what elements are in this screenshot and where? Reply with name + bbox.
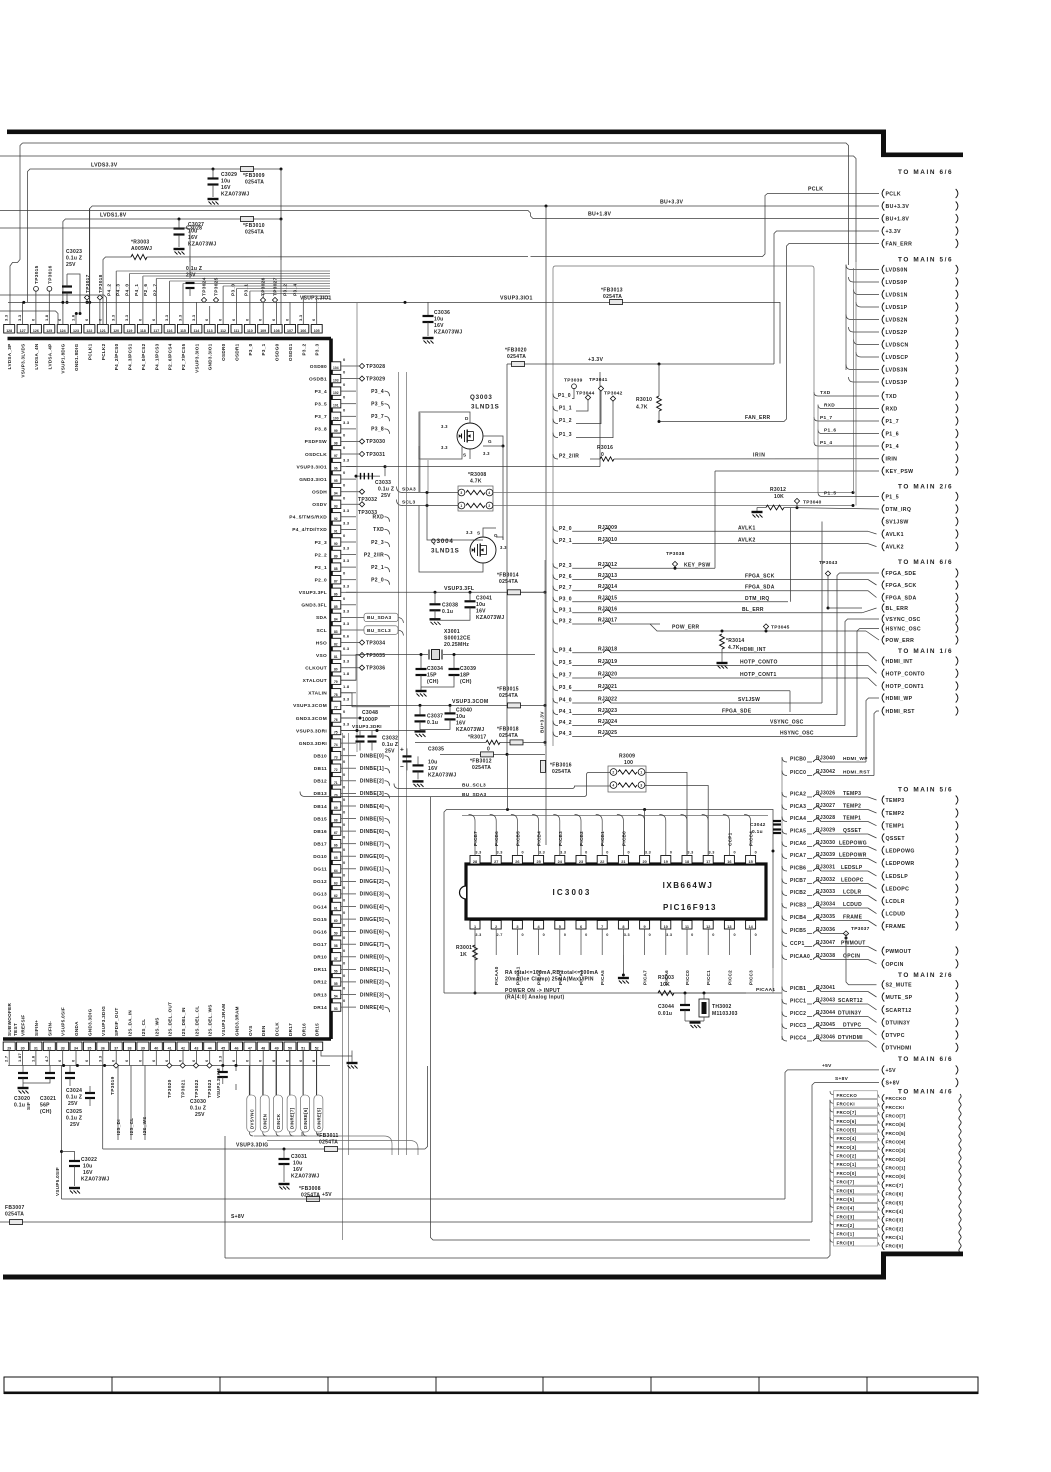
wire from top pin 125: [48, 291, 50, 324]
svg-text:P2_6/PCS4: P2_6/PCS4: [168, 343, 173, 370]
IC3003 pin 10: [661, 921, 671, 930]
svg-text:FRCI[4]: FRCI[4]: [886, 1209, 904, 1214]
svg-text:SCART12: SCART12: [886, 1008, 912, 1014]
svg-text:GND3.3IO1: GND3.3IO1: [208, 343, 213, 370]
svg-text:0: 0: [487, 746, 490, 752]
svg-text:84: 84: [334, 617, 338, 621]
svg-text:P1_5: P1_5: [886, 495, 900, 501]
wire vertical x=507 from +3.3V down: [506, 364, 508, 754]
svg-text:*R3014: *R3014: [726, 638, 744, 644]
svg-text:S00012CE: S00012CE: [444, 636, 471, 642]
wire from pin 64: [341, 868, 356, 870]
wire to LVDS0P: [849, 277, 880, 282]
svg-text:HDMI_WP: HDMI_WP: [843, 756, 868, 762]
svg-text:106: 106: [300, 329, 306, 333]
svg-text:BU+3.3V: BU+3.3V: [886, 204, 910, 210]
svg-text:PICB2: PICB2: [579, 831, 584, 846]
svg-text:128: 128: [6, 329, 12, 333]
svg-text:10K: 10K: [774, 494, 784, 500]
svg-text:RJ3033: RJ3033: [816, 889, 835, 895]
svg-text:1.8: 1.8: [343, 684, 350, 689]
svg-text:P2_1: P2_1: [371, 565, 384, 571]
svg-text:DTVHDMI: DTVHDMI: [838, 1035, 863, 1041]
svg-text:20mA(Ice Clamp) 25mA(Max) /PIN: 20mA(Ice Clamp) 25mA(Max) /PIN: [505, 977, 594, 983]
svg-text:SIF: SIF: [26, 1102, 31, 1110]
svg-text:25V: 25V: [70, 1122, 80, 1128]
connector entry LEDOPC: [882, 884, 884, 893]
wire from pin 102: [341, 390, 356, 392]
svg-text:KZA073WJ: KZA073WJ: [221, 192, 250, 198]
svg-text:M1103J03: M1103J03: [712, 1011, 738, 1017]
svg-text:DTM_IRQ: DTM_IRQ: [886, 507, 912, 513]
wire from pin 72: [341, 767, 356, 769]
wire SCL3: [397, 500, 403, 506]
ground: [416, 690, 427, 692]
connector entry FRCI[6]: [882, 1190, 884, 1198]
ground: [413, 780, 424, 782]
svg-text:R3009: R3009: [619, 754, 635, 760]
wire P1_6 from bus: [818, 430, 879, 434]
svg-text:C3041: C3041: [476, 595, 492, 601]
wire from pin 96: [341, 466, 356, 468]
ground right of pin 46: [235, 1066, 237, 1072]
svg-text:P3_0: P3_0: [248, 343, 253, 355]
svg-text:HDMI_RST: HDMI_RST: [843, 770, 870, 776]
svg-text:P1_3: P1_3: [559, 432, 572, 438]
svg-text:HOTP_CONT1: HOTP_CONT1: [886, 684, 924, 690]
svg-text:DG11: DG11: [314, 867, 327, 873]
wire from top pin 109: [262, 294, 264, 325]
svg-text:0254TA: 0254TA: [245, 180, 264, 186]
svg-text:RJ3022: RJ3022: [598, 697, 617, 703]
svg-text:FRCO[4]: FRCO[4]: [837, 1136, 857, 1141]
svg-text:PICC3: PICC3: [790, 1023, 806, 1029]
svg-text:3.3: 3.3: [124, 314, 129, 321]
pin 118 (P4_0/PCS2) on IC top edge: [137, 325, 148, 334]
svg-text:RJ3016: RJ3016: [598, 606, 617, 612]
svg-text:C3034: C3034: [427, 666, 443, 672]
svg-text:HOTP_CONTO: HOTP_CONTO: [886, 671, 925, 677]
svg-text:GND3.3DRI: GND3.3DRI: [299, 741, 328, 747]
svg-text:0.1u Z: 0.1u Z: [66, 1095, 82, 1101]
svg-text:0.1u Z: 0.1u Z: [186, 266, 202, 272]
capacitor C3027 10u 16V: [178, 219, 180, 228]
border top bar: [7, 130, 885, 135]
svg-text:111: 111: [234, 329, 240, 333]
svg-text:C3038: C3038: [442, 602, 458, 608]
svg-text:S: S: [477, 531, 480, 536]
svg-text:CCP1: CCP1: [727, 832, 732, 846]
title block divider: [650, 1377, 652, 1394]
test point TP3019: [113, 1063, 118, 1068]
svg-text:0.1u Z: 0.1u Z: [66, 256, 82, 262]
svg-text:TP3036: TP3036: [366, 666, 385, 672]
test point TP3032: [359, 489, 364, 494]
wire from pin 94: [341, 491, 359, 493]
svg-text:PICC2: PICC2: [727, 970, 732, 985]
wire VSYNC_OSC vertical: [845, 619, 879, 726]
wire from pin 85: [341, 604, 356, 606]
wire from pin 101: [341, 403, 356, 405]
svg-text:44: 44: [208, 1046, 212, 1050]
wire from pin 54: [341, 994, 356, 996]
svg-text:DB14: DB14: [314, 804, 327, 810]
wire from pin 74: [341, 742, 356, 744]
svg-text:LCDLR: LCDLR: [886, 899, 905, 905]
connector entry FRCO[2]: [882, 1155, 884, 1163]
svg-text:DINBE[2]: DINBE[2]: [360, 779, 384, 785]
svg-text:P4_0: P4_0: [125, 284, 131, 296]
svg-text:104: 104: [333, 366, 339, 370]
svg-text:52: 52: [315, 1046, 319, 1050]
pin 123 (GND1.8DIG) on IC top edge: [71, 325, 82, 334]
wire TXD from bus: [814, 392, 879, 396]
svg-text:125: 125: [46, 329, 52, 333]
svg-text:P2_2/IR: P2_2/IR: [559, 454, 579, 460]
svg-text:BU+3.3V: BU+3.3V: [540, 711, 546, 733]
wire from bottom pin 44: [209, 1051, 211, 1066]
svg-text:VSO: VSO: [316, 653, 327, 659]
junction Q3003 drain node: [502, 445, 505, 448]
wire PICB6: [782, 866, 787, 871]
wire from IC3003 pin 18: [681, 815, 688, 856]
pin 119 (P4_3/PCS1) on IC top edge: [124, 325, 135, 334]
svg-text:DINGE[5]: DINGE[5]: [360, 917, 384, 923]
wire manifold under loop edge: [462, 815, 768, 817]
svg-text:DVSYNC: DVSYNC: [249, 1108, 254, 1129]
svg-text:RJ3030: RJ3030: [816, 840, 835, 846]
svg-text:4.7: 4.7: [44, 1055, 49, 1062]
svg-text:3.3: 3.3: [343, 621, 350, 626]
svg-text:P2_0: P2_0: [559, 526, 572, 532]
svg-text:*FB3018: *FB3018: [497, 726, 519, 732]
svg-text:FRCI[7]: FRCI[7]: [837, 1180, 855, 1185]
svg-text:16: 16: [727, 860, 731, 864]
svg-text:46: 46: [235, 1046, 239, 1050]
svg-text:RJ3039: RJ3039: [816, 852, 835, 858]
wire from pin 61: [341, 906, 356, 908]
svg-text:SDA3: SDA3: [402, 487, 416, 493]
svg-text:DINGE[4]: DINGE[4]: [360, 904, 384, 910]
wire/label FRCI[7]: [830, 1178, 834, 1182]
svg-text:PICB1: PICB1: [600, 831, 605, 846]
svg-text:PICB3: PICB3: [790, 903, 806, 909]
wire BU bus lower going right: [431, 797, 811, 1240]
svg-text:TP3027: TP3027: [273, 277, 279, 296]
ground symbol below pin 52: [351, 1051, 353, 1063]
svg-text:112: 112: [220, 329, 226, 333]
wire from bottom pin 32: [48, 1051, 50, 1066]
wire from pin 58: [341, 943, 356, 945]
svg-text:VSUP5.0SIF: VSUP5.0SIF: [61, 1007, 66, 1036]
svg-text:1.8: 1.8: [71, 314, 76, 321]
svg-text:RJ3034: RJ3034: [816, 902, 835, 908]
ground: [423, 337, 434, 339]
connector entry FPGA_SCK: [882, 581, 884, 590]
svg-text:BU+1.8V: BU+1.8V: [588, 212, 612, 218]
wire to LVDSCP: [856, 352, 879, 357]
svg-text:1: 1: [640, 771, 642, 775]
svg-text:RJ3013: RJ3013: [598, 573, 617, 579]
svg-text:PWMOUT: PWMOUT: [886, 949, 912, 955]
wire to LVDS2P: [849, 327, 880, 332]
svg-text:CLKOUT: CLKOUT: [305, 666, 327, 672]
IC3003 pin 21: [618, 856, 628, 865]
svg-text:C3023: C3023: [66, 249, 82, 255]
svg-text:P4_3/PCS1: P4_3/PCS1: [128, 343, 133, 370]
svg-text:BU+1.8V: BU+1.8V: [886, 217, 910, 223]
svg-text:FRCO[7]: FRCO[7]: [886, 1114, 906, 1119]
wire to LVDS2N: [846, 315, 879, 320]
svg-text:118: 118: [140, 329, 146, 333]
svg-text:92: 92: [334, 517, 338, 521]
wire from top pin 112: [222, 286, 224, 325]
ferrite bead FB3010 0254TA: [241, 217, 254, 222]
svg-text:DG14: DG14: [313, 904, 327, 910]
wire PICB0: [782, 757, 787, 762]
test point TP3033: [359, 502, 364, 507]
svg-text:OSDR1: OSDR1: [235, 343, 240, 360]
pin 107 (OSDG1) on IC top edge: [285, 325, 296, 334]
connector entry FRCO[6]: [882, 1120, 884, 1128]
svg-text:103: 103: [333, 379, 339, 383]
wire from top pin 115: [182, 284, 184, 325]
horizontal wire y=295 left area: [0, 295, 107, 325]
svg-text:RJ3009: RJ3009: [598, 525, 617, 531]
svg-text:GND3.3DIG: GND3.3DIG: [87, 1008, 92, 1036]
capacitor C3022 10u 16V KZA073WJ: [62, 1152, 75, 1161]
svg-text:R3012: R3012: [770, 487, 786, 493]
IC3003 pin 12: [703, 921, 713, 930]
IC3003 pin 4: [534, 921, 544, 930]
svg-text:BU_SCL3: BU_SCL3: [462, 783, 486, 789]
wire from pin 73: [341, 755, 356, 757]
svg-text:+3.3V: +3.3V: [588, 357, 603, 363]
svg-text:DTUIN3Y: DTUIN3Y: [886, 1020, 911, 1026]
svg-text:4: 4: [612, 784, 614, 788]
connector entry LVDS0N: [882, 265, 884, 274]
svg-text:BU+3.3V: BU+3.3V: [660, 200, 684, 206]
IC3003 pin 15: [746, 856, 756, 865]
svg-text:KZA073WJ: KZA073WJ: [476, 615, 505, 621]
connector entry LVDS3N: [882, 365, 884, 374]
IC IC3003 IXB664WJ PIC16F913 (microcontroller): [466, 864, 766, 919]
svg-text:16V: 16V: [428, 766, 438, 772]
svg-text:SDA: SDA: [316, 615, 327, 621]
connector entry LVDSCP: [882, 353, 884, 362]
wire/label FRCO[7]: [830, 1109, 834, 1113]
svg-text:4.7K: 4.7K: [728, 645, 740, 651]
svg-text:LEDSLP: LEDSLP: [886, 874, 909, 880]
svg-text:DINRE[7]: DINRE[7]: [290, 1107, 295, 1129]
svg-text:TP3025: TP3025: [214, 277, 220, 296]
wire PICA7: [782, 854, 787, 859]
svg-text:QSSET: QSSET: [886, 836, 906, 842]
svg-text:P3_7: P3_7: [559, 673, 572, 679]
svg-text:RJ3023: RJ3023: [598, 708, 617, 714]
connector entry RXD: [882, 404, 884, 413]
svg-text:VSUP3.3IO1: VSUP3.3IO1: [500, 296, 533, 302]
svg-text:TO MAIN 4/6: TO MAIN 4/6: [898, 1088, 953, 1095]
svg-text:IRIN: IRIN: [886, 457, 898, 463]
svg-text:I2S_DEL_IN: I2S_DEL_IN: [181, 1007, 186, 1036]
wire/label FRCI[1]: [830, 1230, 834, 1234]
svg-text:41: 41: [168, 1046, 172, 1050]
svg-text:QSSET: QSSET: [843, 828, 861, 834]
svg-text:TP3039: TP3039: [564, 378, 583, 384]
svg-text:TO MAIN 6/6: TO MAIN 6/6: [898, 1056, 953, 1063]
svg-text:16V: 16V: [293, 1167, 303, 1173]
svg-text:C3029: C3029: [221, 172, 237, 178]
svg-text:DG17: DG17: [313, 942, 327, 948]
svg-text:2.7: 2.7: [4, 1055, 9, 1062]
connector entry FRCCKO: [882, 1094, 884, 1102]
svg-text:RJ3032: RJ3032: [816, 877, 835, 883]
svg-text:KZA073WJ: KZA073WJ: [428, 772, 457, 778]
svg-text:3LND1S: 3LND1S: [431, 548, 460, 555]
svg-text:RJ3010: RJ3010: [598, 537, 617, 543]
svg-text:42: 42: [181, 1046, 185, 1050]
svg-text:0.1u: 0.1u: [427, 720, 438, 726]
svg-text:PICB1: PICB1: [790, 986, 806, 992]
svg-text:DINGE[7]: DINGE[7]: [360, 942, 384, 948]
svg-text:RJ3027: RJ3027: [816, 803, 835, 809]
svg-text:DINRE[4]: DINRE[4]: [360, 1005, 384, 1011]
outer loop wire around PIC block: [444, 810, 773, 994]
svg-text:3.3: 3.3: [497, 851, 503, 855]
svg-text:73: 73: [334, 756, 338, 760]
svg-text:VSUP3.3COM: VSUP3.3COM: [452, 699, 488, 705]
svg-text:DINGE[1]: DINGE[1]: [360, 867, 384, 873]
svg-text:TEMP1: TEMP1: [843, 816, 861, 822]
svg-text:0.1u Z: 0.1u Z: [190, 1106, 206, 1112]
wire rail y=143 (LVDS feed): [23, 143, 849, 265]
wire from pin 60: [341, 918, 356, 920]
IC3003 pin 6: [576, 921, 586, 930]
svg-text:P4_3: P4_3: [559, 731, 572, 737]
wire from pin 57: [341, 956, 356, 958]
IC3003 pin 26: [512, 856, 522, 865]
svg-text:PICA7: PICA7: [790, 853, 806, 859]
svg-text:P2_2: P2_2: [315, 552, 327, 558]
net label BU_SDA3: [364, 613, 398, 622]
svg-text:DB11: DB11: [314, 766, 327, 772]
svg-text:66: 66: [334, 844, 338, 848]
svg-text:*FB3012: *FB3012: [470, 758, 492, 764]
svg-text:G: G: [488, 439, 492, 444]
svg-text:DB12: DB12: [314, 779, 327, 785]
svg-text:0: 0: [755, 933, 757, 937]
svg-text:PICB6: PICB6: [790, 866, 806, 872]
svg-text:GND1.8DIG: GND1.8DIG: [74, 343, 79, 371]
svg-text:10u: 10u: [221, 179, 231, 185]
svg-text:43: 43: [194, 1046, 198, 1050]
wire from top pin 116: [169, 281, 171, 325]
svg-text:67: 67: [334, 831, 338, 835]
wire from IC3003 pin 8: [622, 929, 624, 955]
svg-text:HSYNC_OSC: HSYNC_OSC: [886, 627, 921, 633]
wire from bottom pin 35: [88, 1051, 90, 1066]
svg-text:RJ3046: RJ3046: [816, 1035, 835, 1041]
svg-text:0254TA: 0254TA: [499, 579, 518, 585]
svg-text:RJ3031: RJ3031: [816, 865, 835, 871]
svg-text:TP3015: TP3015: [34, 265, 40, 284]
svg-text:BU_SDA3: BU_SDA3: [462, 792, 487, 798]
svg-text:0: 0: [564, 933, 566, 937]
capacitor C3025 0.1u Z 25V: [85, 1092, 95, 1094]
title block: [4, 1377, 978, 1394]
vertical bus wire x=342.5 (DB region): [342, 733, 344, 1240]
wire from IC3003 pin 6: [580, 929, 582, 955]
wire from IC3003 pin 10: [665, 929, 667, 955]
capacitor near VSUP3.3RAM: [222, 1066, 224, 1072]
svg-text:LVDS3P: LVDS3P: [886, 380, 908, 386]
svg-text:15: 15: [748, 860, 752, 864]
svg-text:P2_7/PCS5: P2_7/PCS5: [181, 343, 186, 370]
wire from IC3003 pin 25: [532, 815, 539, 856]
svg-text:10K: 10K: [660, 982, 670, 988]
junction: [178, 218, 181, 221]
svg-text:SPDIF_OUT: SPDIF_OUT: [114, 1008, 119, 1036]
wire to LVDS1N: [854, 290, 880, 295]
svg-text:LVDSCN: LVDSCN: [886, 343, 909, 349]
junction dots on bottom bus: [62, 1064, 65, 1067]
pin 124 (VSUP1.8DIG) on IC top edge: [57, 325, 68, 334]
svg-text:FRCI[4]: FRCI[4]: [837, 1206, 855, 1211]
svg-text:21: 21: [621, 860, 625, 864]
svg-text:LCDUD: LCDUD: [886, 912, 906, 918]
svg-text:25V: 25V: [66, 262, 76, 268]
svg-text:C3044: C3044: [658, 1004, 674, 1010]
border top-right step: [881, 130, 886, 157]
svg-text:RJ3021: RJ3021: [598, 684, 617, 690]
connector entry P1_7: [882, 417, 884, 426]
wire to LVDS3P: [849, 377, 880, 382]
svg-text:S+8V: S+8V: [835, 1076, 849, 1082]
connector entry LVDSCN: [882, 340, 884, 349]
svg-text:49: 49: [275, 1046, 279, 1050]
wire HDMI_WP long vertical: [866, 698, 879, 762]
wire from IC3003 pin 4: [538, 929, 540, 955]
svg-text:1.8: 1.8: [44, 314, 49, 321]
svg-text:OPCIN: OPCIN: [843, 954, 860, 960]
svg-text:*FB3016: *FB3016: [550, 762, 572, 768]
ferrite bead FB3009 0254TA: [241, 167, 254, 172]
svg-text:VREFSIF: VREFSIF: [21, 1015, 26, 1037]
svg-text:DINRE[3]: DINRE[3]: [360, 992, 384, 998]
connector entry DTVHDMI: [882, 1043, 884, 1052]
connector entry LCDUD: [882, 909, 884, 918]
svg-text:PIC16F913: PIC16F913: [663, 903, 717, 912]
wire PICA5: [782, 829, 787, 834]
svg-text:3: 3: [460, 491, 462, 495]
svg-text:12: 12: [706, 925, 710, 929]
svg-text:RJ3026: RJ3026: [816, 791, 835, 797]
wire from top pin 120: [115, 271, 117, 325]
wire P1_4 from bus: [814, 442, 879, 446]
test point TP3040: [794, 498, 799, 503]
svg-text:P3_4: P3_4: [315, 389, 327, 395]
connector entry FAN_ERR: [882, 239, 884, 248]
svg-text:P3_6: P3_6: [559, 685, 572, 691]
svg-text:1000P: 1000P: [362, 717, 378, 723]
svg-text:P3_1: P3_1: [261, 343, 266, 355]
junction at end of LVDS3.3V: [280, 168, 283, 171]
IC3003 pin 1: [470, 921, 480, 930]
svg-text:VSUP3.3DRI: VSUP3.3DRI: [352, 724, 382, 729]
svg-text:*R3003: *R3003: [131, 240, 149, 246]
IC3003 pin 27: [491, 856, 501, 865]
